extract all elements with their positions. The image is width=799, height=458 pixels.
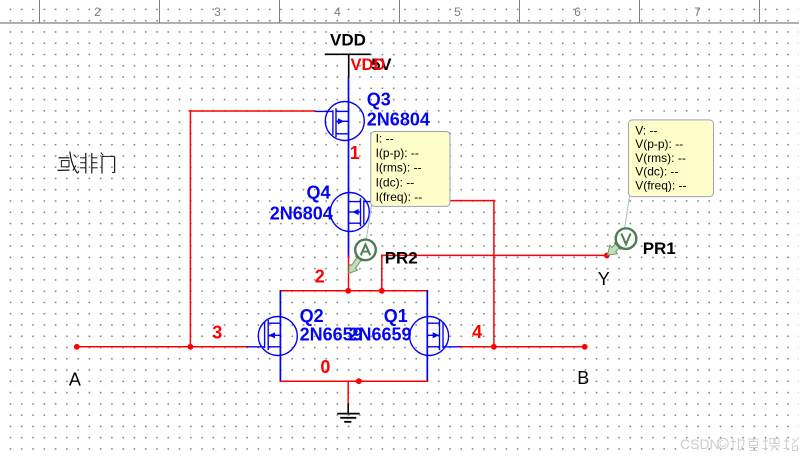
svg-text:6: 6 — [574, 5, 581, 19]
svg-text:Q2: Q2 — [300, 306, 324, 326]
svg-text:V: --: V: -- — [635, 123, 657, 137]
svg-text:5: 5 — [454, 5, 461, 19]
svg-text:2: 2 — [94, 5, 101, 19]
svg-text:CSDN: CSDN — [680, 436, 720, 452]
transistor Q2 2N6659 (NMOS) — [247, 317, 297, 356]
wire VDD rail (blue) — [348, 78, 350, 257]
terminal B — [582, 344, 588, 350]
junction node 2 at drain bus — [345, 288, 351, 294]
tooltip box PR2 current readout — [371, 132, 450, 207]
wire node2 vertical — [348, 256, 350, 291]
power symbol VDD — [325, 54, 371, 77]
wire Q1 rail — [426, 291, 428, 381]
svg-text:2N6804: 2N6804 — [367, 109, 430, 129]
svg-text:2N6659: 2N6659 — [349, 325, 412, 345]
connector thread PR2 box to probe — [366, 206, 371, 241]
svg-text:I(p-p): --: I(p-p): -- — [376, 146, 419, 160]
wire Q3 gate horizontal — [189, 110, 314, 112]
svg-text:I: --: I: -- — [376, 132, 394, 146]
svg-text:4: 4 — [472, 322, 482, 342]
junction node 4 — [491, 344, 497, 350]
wire B junction vertical — [493, 201, 495, 347]
svg-text:1: 1 — [350, 143, 360, 163]
svg-text:3: 3 — [212, 323, 222, 343]
wire ground stem red — [347, 381, 349, 404]
watermark CSDN — [680, 436, 720, 452]
svg-text:I(rms): --: I(rms): -- — [376, 161, 422, 175]
wire PR2 vertical — [381, 255, 383, 290]
terminal Y probe point — [604, 253, 610, 259]
junction ground tap — [356, 378, 362, 384]
transistor Q4 2N6804 (PMOS, mirrored) — [330, 193, 376, 232]
svg-text:3: 3 — [214, 5, 221, 19]
wire B input horizontal — [460, 346, 585, 348]
ruler ticks — [40, 0, 760, 23]
watermark @初雪璎珞 (drawn) — [718, 437, 799, 451]
ruler bottom border — [0, 22, 799, 24]
svg-text:I(dc): --: I(dc): -- — [376, 175, 415, 189]
wire output Y horizontal — [382, 254, 607, 256]
svg-text:V(freq): --: V(freq): -- — [635, 179, 686, 193]
svg-text:4: 4 — [334, 5, 341, 19]
probe PR2 (current probe A) — [349, 240, 376, 274]
junction PR2 tap — [379, 288, 385, 294]
svg-text:V(p-p): --: V(p-p): -- — [635, 137, 683, 151]
svg-text:Q3: Q3 — [367, 89, 391, 109]
ground — [337, 404, 359, 422]
wire Q4 gate horizontal — [374, 200, 494, 202]
svg-text:0: 0 — [320, 357, 330, 377]
svg-text:Y: Y — [598, 269, 610, 289]
svg-text:I(freq): --: I(freq): -- — [376, 190, 423, 204]
junction node 3 — [188, 344, 194, 350]
connector thread PR1 box to probe — [625, 196, 630, 229]
svg-text:VDD: VDD — [351, 56, 386, 74]
ruler numbers — [94, 5, 701, 19]
wire drain bus top — [280, 290, 427, 292]
transistor Q1 2N6659 (NMOS, mirrored) — [410, 317, 461, 356]
wire A junction vertical — [189, 111, 191, 347]
transistor Q3 2N6804 (PMOS) — [315, 102, 365, 141]
svg-text:V(dc): --: V(dc): -- — [635, 165, 678, 179]
svg-text:2: 2 — [315, 266, 325, 286]
svg-text:PR2: PR2 — [385, 248, 418, 267]
tooltip box PR1 voltage readout — [628, 120, 713, 197]
svg-text:Q4: Q4 — [307, 182, 331, 202]
svg-text:VDD: VDD — [330, 31, 366, 50]
wire Q2 rail — [279, 291, 281, 381]
svg-text:V(rms): --: V(rms): -- — [635, 151, 686, 165]
svg-text:A: A — [69, 369, 81, 389]
svg-text:PR1: PR1 — [643, 239, 676, 258]
svg-text:2N6804: 2N6804 — [270, 204, 333, 224]
wire A input horizontal — [77, 346, 247, 348]
terminal A — [74, 344, 80, 350]
svg-text:7: 7 — [694, 5, 701, 19]
annotation text 或非门 (NOR gate) — [58, 152, 115, 174]
probe PR1 (voltage probe V) — [607, 228, 636, 255]
svg-text:B: B — [577, 368, 589, 388]
wire source bus bottom — [280, 380, 427, 382]
svg-text:Q1: Q1 — [384, 306, 408, 326]
